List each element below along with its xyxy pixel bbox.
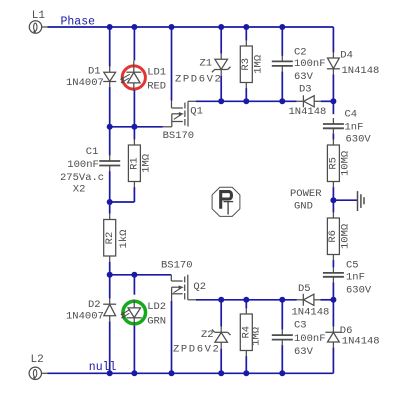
svg-text:D1: D1: [88, 66, 101, 78]
svg-text:100nF: 100nF: [67, 159, 99, 171]
svg-text:63V: 63V: [294, 346, 314, 358]
svg-text:ZPD6V2: ZPD6V2: [175, 73, 222, 85]
svg-text:X2: X2: [73, 184, 86, 196]
svg-text:275Va.c: 275Va.c: [60, 172, 104, 184]
svg-text:null: null: [89, 361, 117, 374]
svg-text:D2: D2: [88, 299, 101, 311]
svg-text:BS170: BS170: [161, 259, 193, 271]
svg-text:C5: C5: [346, 260, 359, 272]
svg-text:LD2: LD2: [147, 301, 166, 313]
svg-text:RED: RED: [147, 80, 166, 92]
svg-text:1N4148: 1N4148: [289, 106, 327, 118]
svg-text:100nF: 100nF: [294, 58, 326, 70]
svg-text:R5: R5: [327, 157, 339, 170]
svg-text:63V: 63V: [294, 71, 314, 83]
svg-text:C4: C4: [345, 108, 358, 120]
svg-text:L1: L1: [32, 10, 46, 22]
svg-text:1nF: 1nF: [346, 272, 365, 284]
svg-text:10MΩ: 10MΩ: [340, 151, 352, 176]
svg-text:ZPD6V2: ZPD6V2: [173, 344, 220, 356]
svg-text:1N4007: 1N4007: [66, 310, 104, 322]
svg-text:10MΩ: 10MΩ: [339, 224, 351, 249]
svg-text:Q1: Q1: [190, 106, 203, 118]
svg-text:R2: R2: [104, 232, 116, 245]
svg-text:BS170: BS170: [163, 130, 195, 142]
svg-text:C3: C3: [294, 320, 307, 332]
svg-text:R1: R1: [128, 157, 140, 170]
svg-text:1N4148: 1N4148: [342, 65, 380, 77]
svg-text:R6: R6: [327, 230, 339, 243]
svg-text:1N4148: 1N4148: [292, 307, 330, 319]
svg-text:D5: D5: [298, 283, 311, 295]
svg-text:C2: C2: [294, 47, 307, 59]
svg-text:POWER: POWER: [290, 188, 322, 200]
svg-text:D4: D4: [340, 50, 353, 62]
svg-text:1kΩ: 1kΩ: [118, 230, 130, 249]
svg-text:1MΩ: 1MΩ: [252, 55, 264, 74]
svg-text:1N4007: 1N4007: [66, 77, 104, 89]
svg-text:1N4148: 1N4148: [342, 336, 380, 348]
svg-text:630V: 630V: [346, 285, 372, 297]
svg-text:Z1: Z1: [200, 58, 213, 70]
svg-text:1MΩ: 1MΩ: [250, 327, 262, 346]
svg-text:Z2: Z2: [201, 329, 214, 341]
svg-text:1MΩ: 1MΩ: [140, 154, 152, 173]
svg-text:L2: L2: [31, 354, 44, 366]
svg-text:630V: 630V: [346, 134, 372, 146]
svg-text:C1: C1: [86, 146, 99, 158]
svg-text:100nF: 100nF: [294, 333, 326, 345]
svg-text:Q2: Q2: [193, 281, 206, 293]
svg-text:GND: GND: [294, 200, 313, 212]
svg-text:LD1: LD1: [147, 66, 166, 78]
svg-text:D3: D3: [299, 83, 312, 95]
svg-text:R3: R3: [240, 58, 252, 71]
svg-text:Phase: Phase: [61, 16, 96, 29]
svg-text:GRN: GRN: [147, 316, 166, 328]
svg-text:1nF: 1nF: [345, 122, 364, 134]
